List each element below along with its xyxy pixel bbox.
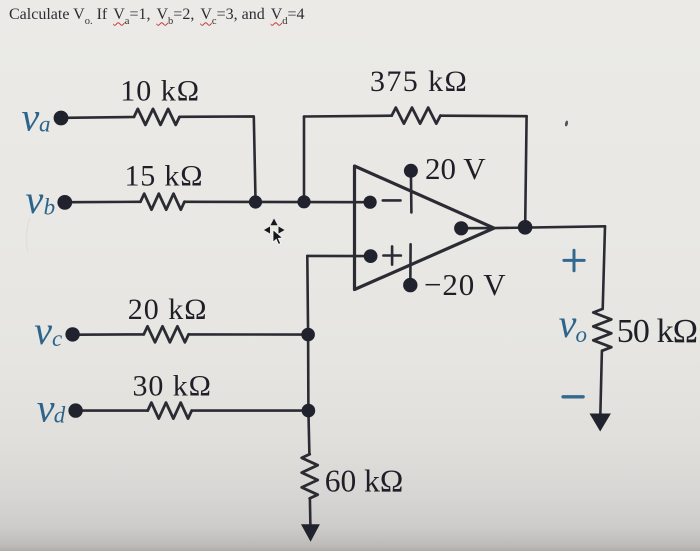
svg-text:c: c	[52, 326, 62, 351]
wire vc lead	[78, 333, 144, 336]
polarity minus sign (load)	[563, 395, 583, 398]
mouse move cursor glyph	[264, 219, 285, 245]
wire plus input lead	[307, 255, 366, 258]
svg-text:d: d	[54, 403, 66, 428]
op-amp U1 body	[355, 166, 495, 290]
op-amp non-inverting input pin dot	[364, 249, 378, 263]
wire inverting input line	[185, 201, 365, 204]
wire feedback top right	[440, 114, 526, 117]
wire vd lead	[81, 409, 148, 412]
wire vb lead	[70, 201, 141, 204]
svg-text:10 kΩ: 10 kΩ	[120, 75, 200, 108]
photo speck artifact	[564, 120, 568, 126]
svg-text:30 kΩ: 30 kΩ	[133, 370, 212, 403]
svg-text:375 kΩ: 375 kΩ	[370, 65, 468, 98]
op-amp negative supply wire	[409, 244, 412, 285]
wire Ra to inverting node (corner down)	[180, 116, 256, 199]
wire Rg to ground	[309, 498, 312, 526]
op-amp minus sign	[383, 199, 401, 202]
wire output corner down to load	[603, 226, 605, 309]
polarity plus sign (load)	[564, 250, 584, 271]
junction Rd / ground bus	[302, 404, 316, 418]
wire feedback right vertical	[525, 116, 526, 224]
positive supply terminal dot	[404, 164, 418, 178]
wire feedback left vertical	[303, 117, 306, 202]
terminal vd	[68, 403, 82, 417]
resistor 20 kOhm Rc	[144, 326, 189, 342]
wire load to ground	[600, 351, 602, 416]
ground arrow (load)	[590, 414, 611, 432]
terminal vc	[65, 327, 79, 341]
ground arrow (60 kOhm)	[301, 524, 320, 542]
terminal va	[54, 111, 69, 126]
svg-text:20 kΩ: 20 kΩ	[128, 293, 208, 326]
wire Rc to bus	[189, 333, 309, 336]
faint screen smudge	[26, 218, 30, 252]
wire Rd to bus	[192, 409, 309, 412]
resistor 50 kOhm load	[593, 309, 611, 351]
junction Ra / inverting node	[249, 195, 262, 208]
svg-text:50 kΩ: 50 kΩ	[617, 313, 697, 350]
terminal vb	[57, 195, 72, 210]
resistor 60 kOhm Rg	[302, 454, 318, 498]
svg-text:v: v	[559, 301, 577, 346]
title question text	[9, 6, 305, 24]
svg-text:60 kΩ: 60 kΩ	[325, 463, 404, 498]
resistor 375 kOhm Rf	[392, 108, 441, 124]
wire va lead	[66, 116, 134, 119]
junction feedback / inverting node	[297, 195, 310, 208]
resistor 30 kOhm Rd	[148, 403, 192, 419]
svg-text:v: v	[22, 94, 40, 139]
junction Rc / ground bus	[301, 328, 315, 342]
svg-text:b: b	[44, 195, 56, 220]
op-amp inverting input pin dot	[364, 196, 377, 209]
svg-text:o: o	[576, 322, 588, 347]
svg-text:a: a	[39, 112, 51, 137]
resistor 15 kOhm Rb	[141, 194, 185, 210]
op-amp output pin dot	[454, 221, 468, 235]
svg-text:v: v	[37, 386, 55, 431]
negative supply terminal dot	[403, 278, 417, 292]
op-amp positive supply wire	[410, 171, 413, 212]
svg-text:−20 V: −20 V	[424, 267, 507, 302]
wire ground bus vertical	[307, 256, 309, 454]
svg-text:20 V: 20 V	[425, 151, 486, 186]
junction feedback / output node	[518, 220, 533, 235]
resistor 10 kOhm Ra	[134, 109, 180, 125]
op-amp plus sign	[383, 246, 401, 264]
wire op-amp output	[461, 226, 605, 228]
svg-text:v: v	[26, 177, 44, 222]
svg-text:15 kΩ: 15 kΩ	[125, 160, 204, 193]
svg-text:v: v	[34, 308, 52, 353]
wire feedback top left	[304, 114, 392, 117]
